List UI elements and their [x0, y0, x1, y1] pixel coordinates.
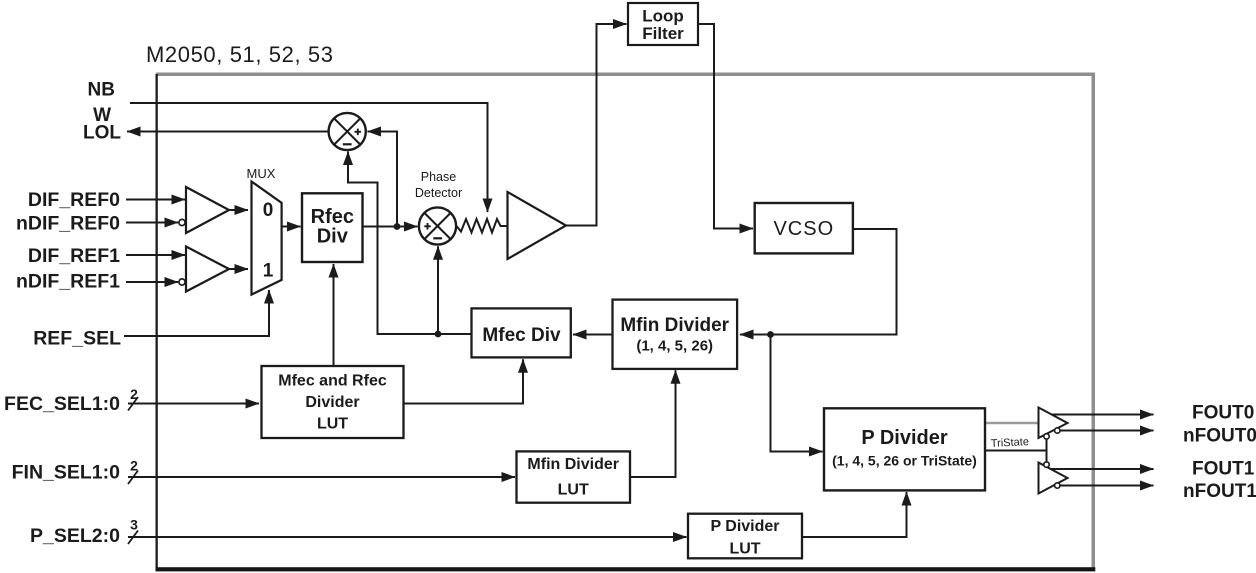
svg-text:nFOUT1: nFOUT1	[1183, 481, 1256, 502]
svg-text:P Divider: P Divider	[710, 518, 779, 535]
svg-text:LUT: LUT	[558, 482, 589, 499]
svg-text:FOUT1: FOUT1	[1192, 459, 1255, 480]
svg-text:(1, 4, 5, 26): (1, 4, 5, 26)	[636, 338, 713, 355]
svg-text:FEC_SEL1:0: FEC_SEL1:0	[4, 393, 120, 415]
svg-text:nDIF_REF1: nDIF_REF1	[16, 271, 120, 293]
svg-text:Filter: Filter	[642, 24, 684, 43]
svg-text:FOUT0: FOUT0	[1192, 403, 1254, 424]
svg-text:VCSO: VCSO	[773, 218, 834, 240]
svg-text:2: 2	[130, 458, 138, 474]
svg-text:Divider: Divider	[305, 394, 359, 411]
svg-text:nFOUT0: nFOUT0	[1183, 426, 1256, 447]
svg-text:Loop: Loop	[642, 7, 684, 26]
svg-text:DIF_REF0: DIF_REF0	[28, 189, 120, 211]
svg-text:P_SEL2:0: P_SEL2:0	[30, 525, 120, 547]
svg-text:NB: NB	[88, 80, 115, 101]
svg-text:P Divider: P Divider	[861, 427, 948, 449]
svg-text:TriState: TriState	[991, 436, 1030, 450]
svg-text:nDIF_REF0: nDIF_REF0	[16, 213, 120, 235]
svg-text:(1, 4, 5, 26 or TriState): (1, 4, 5, 26 or TriState)	[832, 453, 977, 469]
svg-text:Mfin Divider: Mfin Divider	[527, 456, 619, 473]
svg-text:2: 2	[130, 386, 138, 402]
svg-text:LUT: LUT	[729, 541, 760, 558]
svg-text:REF_SEL: REF_SEL	[33, 328, 121, 350]
svg-text:0: 0	[263, 200, 274, 221]
svg-text:MUX: MUX	[247, 166, 276, 181]
svg-text:Mfin Divider: Mfin Divider	[620, 315, 729, 336]
svg-text:1: 1	[263, 261, 274, 282]
svg-text:3: 3	[130, 517, 138, 533]
svg-text:DIF_REF1: DIF_REF1	[28, 245, 120, 267]
svg-text:LUT: LUT	[317, 416, 348, 433]
svg-text:LOL: LOL	[83, 123, 121, 144]
svg-text:Mfec Div: Mfec Div	[482, 325, 561, 346]
svg-text:Phase: Phase	[421, 170, 456, 184]
svg-text:M2050, 51, 52, 53: M2050, 51, 52, 53	[146, 42, 334, 67]
svg-text:Div: Div	[317, 226, 349, 248]
svg-text:Detector: Detector	[415, 186, 462, 200]
svg-text:FIN_SEL1:0: FIN_SEL1:0	[12, 462, 121, 484]
svg-text:Mfec and Rfec: Mfec and Rfec	[278, 373, 387, 390]
